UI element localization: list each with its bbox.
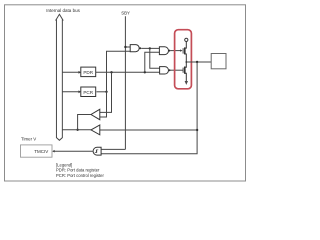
Timer V dashed module box <box>21 145 53 157</box>
node: PCR branch <box>105 91 107 93</box>
svg-text:Port control register: Port control register <box>67 173 104 178</box>
wire: PCR up to gate U1 lower input <box>107 51 131 92</box>
svg-text:PDR: PDR <box>83 70 93 75</box>
schmitt input buffer <box>93 147 101 155</box>
wire: SBY into gate U1 upper input <box>125 46 130 48</box>
wire: pin vertical down <box>101 62 197 154</box>
highlight box (red rounded rect) <box>175 30 192 89</box>
wire: SBY vertical line <box>124 16 126 149</box>
node: U1 output branch <box>149 47 151 49</box>
buffer B1 (read PDR, points left) <box>91 109 100 119</box>
node: read line junction <box>76 129 78 131</box>
node: PDR to read buffer branch <box>110 71 112 73</box>
svg-text:PCR: PCR <box>83 90 93 95</box>
internal data bus (vertical bus arrow) <box>56 14 63 140</box>
transistor Q2 NMOS <box>182 68 184 73</box>
hysteresis symbol <box>95 150 97 153</box>
wire: drain node to pad <box>186 61 211 63</box>
wire: PCR down to buffer B1 second input <box>100 92 107 117</box>
register PDR <box>81 67 96 77</box>
wire: pin level to buffer B2 input <box>100 129 197 131</box>
node: pin read branch <box>196 129 198 131</box>
gate U1 (NAND SBY/PCR) <box>130 45 139 52</box>
svg-text:Internal data bus: Internal data bus <box>46 8 80 13</box>
gate U2 (NAND, drives PMOS) <box>159 47 168 55</box>
svg-text:Timer V: Timer V <box>21 137 36 142</box>
power terminal circle <box>185 38 188 41</box>
pad square <box>211 54 226 69</box>
arrowhead into PDR <box>79 71 82 74</box>
wire: branch up to gate U2 lower input <box>145 52 160 72</box>
node: drain junction <box>185 61 187 63</box>
node: pin node <box>196 61 198 63</box>
transistor Q1 PMOS <box>182 48 184 53</box>
wire: SBY to schmitt upper input <box>101 148 125 150</box>
node: SBY junction <box>124 46 126 48</box>
wire: U1 output to gate U2 upper input <box>141 47 159 49</box>
register PCR <box>81 87 96 97</box>
wire: B1 output to read line <box>78 115 91 130</box>
wire: schmitt output to TMCIV <box>54 150 93 152</box>
gate U3 (drives NMOS) <box>160 67 169 74</box>
svg-text:SBY: SBY <box>121 11 130 16</box>
wire: U3 output to NMOS gate <box>171 69 184 71</box>
wire: PCR output line <box>97 91 107 93</box>
arrowhead into PCR <box>79 90 82 93</box>
wire: read line to bus <box>62 129 91 131</box>
wire: U2 output to PMOS gate <box>170 50 180 52</box>
wire: bus to PCR <box>62 91 79 93</box>
wire: branch down to gate U3 upper input <box>150 48 160 68</box>
buffer B2 (read pin, points left) <box>91 125 100 135</box>
wire: branch down to buffer B1 input <box>100 72 112 112</box>
wire: bus to PDR <box>62 71 79 73</box>
arrowhead into TMCIV box <box>52 150 54 153</box>
node: PDR to gate U2 branch <box>144 71 146 73</box>
ground arrow (VSS) <box>185 81 188 85</box>
wire: PDR output line to gate U3 lower input <box>96 71 160 73</box>
svg-text:PCR:: PCR: <box>56 173 66 178</box>
svg-text:TMCIV: TMCIV <box>34 149 48 154</box>
arrowhead at PMOS gate <box>180 49 182 51</box>
border frame <box>5 5 246 181</box>
